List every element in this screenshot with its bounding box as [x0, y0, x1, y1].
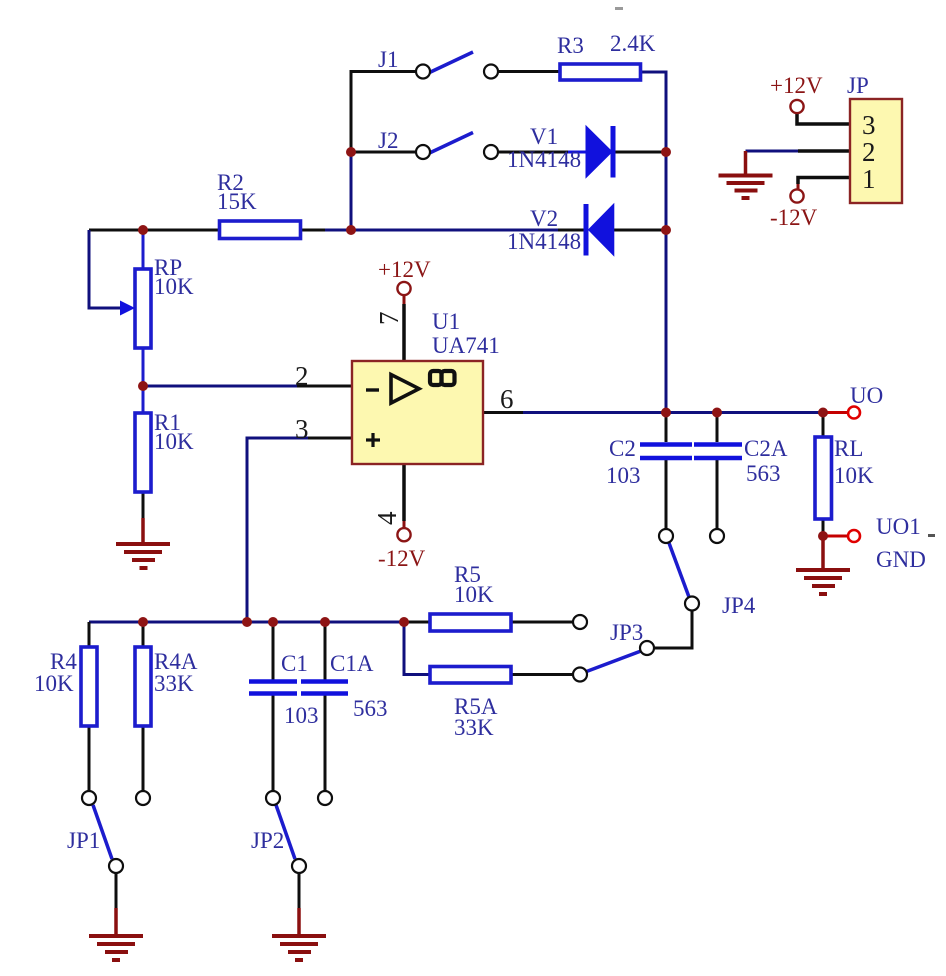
svg-text:UO: UO	[850, 383, 883, 408]
junction RL bottom / UO1 / ground	[818, 531, 828, 541]
junction C1A bottom row	[320, 617, 330, 627]
resistor RL	[815, 437, 832, 519]
junction RP bottom / R1 / pin2	[138, 381, 148, 391]
resistor R4	[81, 647, 97, 726]
wire JP pin 3 to +12V terminal	[797, 113, 850, 124]
resistor R3	[560, 64, 641, 80]
svg-text:33K: 33K	[154, 671, 194, 696]
connector JP header	[850, 99, 902, 203]
wire J2 junction to J2 left circle	[351, 151, 415, 154]
capacitor C2A	[694, 445, 742, 459]
svg-text:R3: R3	[557, 33, 584, 58]
wire R1 top lead	[142, 386, 145, 413]
wire op-amp pin 4	[402, 464, 406, 521]
wire RL bottom lead	[822, 519, 825, 536]
wire op-amp pin 4 power stub	[403, 521, 406, 528]
wire JP1 to ground	[115, 874, 118, 908]
terminal C2A open circle	[710, 529, 724, 543]
power terminal +12V JP	[790, 100, 803, 113]
power terminal -12V op-amp	[397, 528, 410, 541]
wire op-amp pin 7 power stub	[403, 295, 406, 304]
junction C2A top	[712, 408, 722, 418]
wire C1A top lead	[324, 622, 327, 680]
wire R5 left lead	[404, 621, 430, 624]
svg-text:10K: 10K	[454, 582, 494, 607]
wire R4 bottom lead	[88, 726, 91, 790]
svg-text:563: 563	[353, 696, 388, 721]
svg-text:10K: 10K	[154, 429, 194, 454]
wire UO1 red stub	[823, 535, 848, 538]
ground JP2	[272, 936, 326, 960]
wire JP4 to JP3	[655, 611, 692, 648]
ground RL	[796, 570, 850, 594]
svg-text:-12V: -12V	[770, 205, 818, 230]
wire UO red stub	[823, 411, 848, 414]
svg-text:1: 1	[862, 164, 876, 194]
diode V2 1N4148	[584, 204, 614, 256]
svg-text:7: 7	[374, 312, 404, 326]
junction pin3 net bottom row	[242, 617, 252, 627]
junction J2 tee	[346, 147, 356, 157]
wire pin 3 net down to bottom row	[247, 438, 308, 622]
junction RP top / R2 row	[138, 225, 148, 235]
capacitor C2	[640, 445, 692, 459]
terminal R4A open circle	[136, 791, 150, 805]
svg-text:JP4: JP4	[722, 593, 756, 618]
svg-text:3: 3	[295, 414, 309, 444]
wire -12V terminal stub dark red	[797, 184, 800, 190]
svg-text:JP2: JP2	[251, 828, 284, 853]
junction RL top / UO	[818, 408, 828, 418]
wire pin 3 stub	[308, 437, 352, 440]
svg-text:C1A: C1A	[330, 651, 374, 676]
stray mark right	[928, 534, 935, 537]
resistor R4A	[135, 647, 151, 726]
svg-text:10K: 10K	[154, 274, 194, 299]
svg-text:10K: 10K	[34, 671, 74, 696]
svg-text:J2: J2	[378, 128, 398, 153]
svg-text:33K: 33K	[454, 715, 494, 740]
switch JP1	[82, 791, 123, 873]
wire C1A bottom lead	[324, 695, 327, 790]
svg-text:V2: V2	[530, 206, 558, 231]
wire R2 left lead to row left end	[89, 229, 220, 232]
wire J2 right circle to V1 anode	[499, 151, 568, 154]
wire V2 cathode lead	[558, 229, 584, 232]
svg-text:+12V: +12V	[770, 73, 823, 98]
resistor R1	[135, 413, 151, 492]
wire JP ground stub dark red	[744, 151, 748, 176]
wire op-amp pin 7	[402, 304, 406, 361]
svg-text:JP: JP	[847, 73, 869, 98]
wire JP pin 2 stub	[798, 149, 850, 153]
wire C2A top lead	[716, 413, 719, 443]
junction V1 cathode column	[661, 147, 671, 157]
svg-text:563: 563	[746, 461, 781, 486]
wire J1 left to J1/J2 vertical	[351, 72, 415, 153]
wire RP top lead	[142, 230, 145, 269]
svg-text:C2: C2	[609, 436, 636, 461]
svg-text:C1: C1	[281, 651, 308, 676]
svg-text:6: 6	[500, 384, 514, 414]
svg-text:C2A: C2A	[744, 436, 788, 461]
wire R1 ground stub dark red	[141, 518, 145, 543]
svg-text:103: 103	[606, 463, 641, 488]
svg-text:GND: GND	[876, 547, 926, 572]
wire R5A right lead to open circle	[511, 673, 572, 676]
svg-text:+12V: +12V	[378, 257, 431, 282]
junction C1 bottom row	[268, 617, 278, 627]
potentiometer RP	[120, 269, 151, 348]
wire left column down to RP wiper	[89, 230, 121, 308]
terminal UO1	[848, 530, 860, 542]
svg-text:JP3: JP3	[610, 620, 643, 645]
wire pin 6 stub	[483, 411, 523, 414]
wire bottom row net	[89, 621, 404, 624]
junction R4A bottom row	[138, 617, 148, 627]
svg-text:1N4148: 1N4148	[507, 229, 581, 254]
wire JP2 to ground	[298, 874, 301, 908]
terminal UO	[848, 407, 860, 419]
wire RL ground stub dark red	[821, 536, 825, 569]
capacitor C1	[249, 682, 297, 694]
svg-text:JP1: JP1	[67, 828, 100, 853]
wire R5 right lead to open circle	[511, 621, 572, 624]
stray mark top	[615, 7, 623, 10]
power terminal +12V op-amp	[397, 282, 410, 295]
ground JP1	[89, 936, 143, 960]
ground JP pin2	[719, 176, 773, 199]
wire V2 anode to column junction	[614, 229, 666, 232]
svg-text:4: 4	[372, 511, 402, 525]
junction V2 anode column	[661, 225, 671, 235]
wire J2 tee vertical down to R2 row	[350, 152, 353, 230]
wire R5A branch	[404, 622, 430, 675]
diode V1 1N4148	[586, 126, 616, 178]
wire R2 right lead	[301, 229, 325, 232]
svg-text:-12V: -12V	[378, 546, 426, 571]
wire C1 bottom lead	[272, 695, 275, 790]
svg-text:2: 2	[862, 137, 876, 167]
wire inverting input net to pin 2	[143, 385, 297, 388]
svg-text:UA741: UA741	[432, 333, 500, 358]
wire V1 cathode to column junction	[615, 151, 666, 154]
resistor R2	[220, 221, 301, 239]
terminal C1A open circle	[318, 791, 332, 805]
svg-text:J1: J1	[378, 47, 398, 72]
wire J1 right circle to R3	[499, 70, 560, 73]
svg-text:103: 103	[284, 703, 319, 728]
switch JP4	[659, 529, 699, 611]
wire JP1 ground stub dark red	[114, 908, 118, 935]
wire pin 2 stub	[297, 385, 352, 388]
wire R4A top lead	[142, 622, 145, 647]
junction C2 top	[661, 408, 671, 418]
wire C2A bottom lead to open circle	[716, 460, 719, 528]
wire JP2 ground stub dark red	[297, 908, 301, 935]
svg-text:RL: RL	[834, 436, 863, 461]
svg-text:U1: U1	[432, 309, 460, 334]
ground R1	[116, 544, 170, 568]
switch J1	[416, 52, 498, 79]
svg-text:2.4K: 2.4K	[610, 31, 656, 56]
wire C1 top lead	[272, 622, 275, 680]
svg-text:10K: 10K	[834, 463, 874, 488]
wire C2 top lead	[665, 413, 668, 443]
svg-text:1N4148: 1N4148	[507, 147, 581, 172]
svg-text:15K: 15K	[217, 189, 257, 214]
switch JP3	[573, 641, 654, 682]
wire RL top lead	[822, 413, 825, 438]
wire R4A bottom lead	[142, 726, 145, 790]
wire JP pin 2 net to ground	[746, 150, 799, 153]
wire output net to RL junction	[523, 411, 823, 414]
resistor R5A	[430, 667, 511, 684]
svg-text:3: 3	[862, 110, 876, 140]
wire V1 anode lead	[568, 151, 587, 154]
wire to J1/J2 column junction	[325, 229, 351, 232]
wire junction to V2 cathode	[351, 229, 558, 232]
svg-text:V1: V1	[530, 124, 558, 149]
svg-text:2: 2	[295, 361, 309, 391]
svg-text:UO1: UO1	[876, 514, 921, 539]
wire R3 right corner down to V1/V2/pin6 column	[641, 72, 667, 413]
wire C2 bottom lead to JP4	[665, 460, 668, 528]
op-amp U1 UA741	[352, 361, 483, 464]
wire R1 bottom lead to ground	[142, 492, 145, 518]
junction R2 / V2 row tee	[346, 225, 356, 235]
power terminal -12V JP	[790, 189, 803, 202]
switch JP2	[266, 791, 306, 873]
terminal R5 open circle	[573, 615, 587, 629]
resistor R5	[430, 614, 511, 631]
wire R4 top lead	[88, 622, 91, 647]
junction R5 / R5A	[399, 617, 409, 627]
capacitor C1A	[301, 682, 348, 694]
wire RP bottom lead	[142, 348, 145, 386]
switch J2	[416, 133, 498, 160]
wire JP pin 1 to -12V terminal	[798, 178, 850, 185]
